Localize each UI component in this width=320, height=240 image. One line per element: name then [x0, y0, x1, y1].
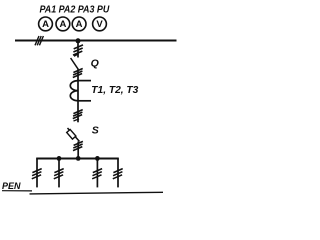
svg-text:Q: Q: [91, 58, 99, 70]
ammeter PA2: [56, 17, 70, 31]
fuse-switch S: [67, 119, 80, 142]
disconnector Q: [71, 54, 79, 70]
ammeter PA1: [39, 17, 53, 31]
svg-text:A: A: [59, 19, 66, 30]
hatch group 3: [73, 110, 83, 119]
hatch group 4: [73, 141, 83, 150]
svg-text:S: S: [92, 124, 99, 136]
svg-text:PA1 PA2 PA3 PU: PA1 PA2 PA3 PU: [40, 5, 110, 16]
hatch group 1: [73, 45, 83, 55]
feeder 4: [113, 158, 123, 187]
wire Q to CT: [77, 69, 79, 80]
svg-text:V: V: [96, 19, 103, 30]
PEN label underline: [2, 190, 32, 192]
wire bus to Q: [77, 41, 79, 58]
svg-text:A: A: [42, 19, 49, 30]
bottom distribution bus: [36, 158, 119, 160]
PEN conductor: [30, 192, 164, 194]
svg-text:A: A: [76, 19, 83, 30]
top busbar: [15, 40, 177, 42]
busbar 3-phase hatch: [35, 36, 43, 45]
node feeder 2: [57, 156, 62, 161]
voltmeter PU: [93, 17, 107, 31]
ammeter PA3: [72, 17, 86, 31]
junction node on busbar: [76, 38, 81, 43]
svg-text:T1, T2, T3: T1, T2, T3: [91, 85, 138, 96]
feeder 2: [54, 158, 64, 187]
feeder 1: [32, 158, 42, 187]
feeder 3: [92, 158, 102, 187]
current transformer T1,T2,T3: [70, 81, 91, 101]
node feeder 3: [95, 156, 100, 161]
wire CT to S: [77, 101, 79, 123]
wire S to bottom bus: [77, 142, 79, 159]
hatch group 2: [73, 69, 83, 78]
node main feed: [76, 156, 81, 161]
